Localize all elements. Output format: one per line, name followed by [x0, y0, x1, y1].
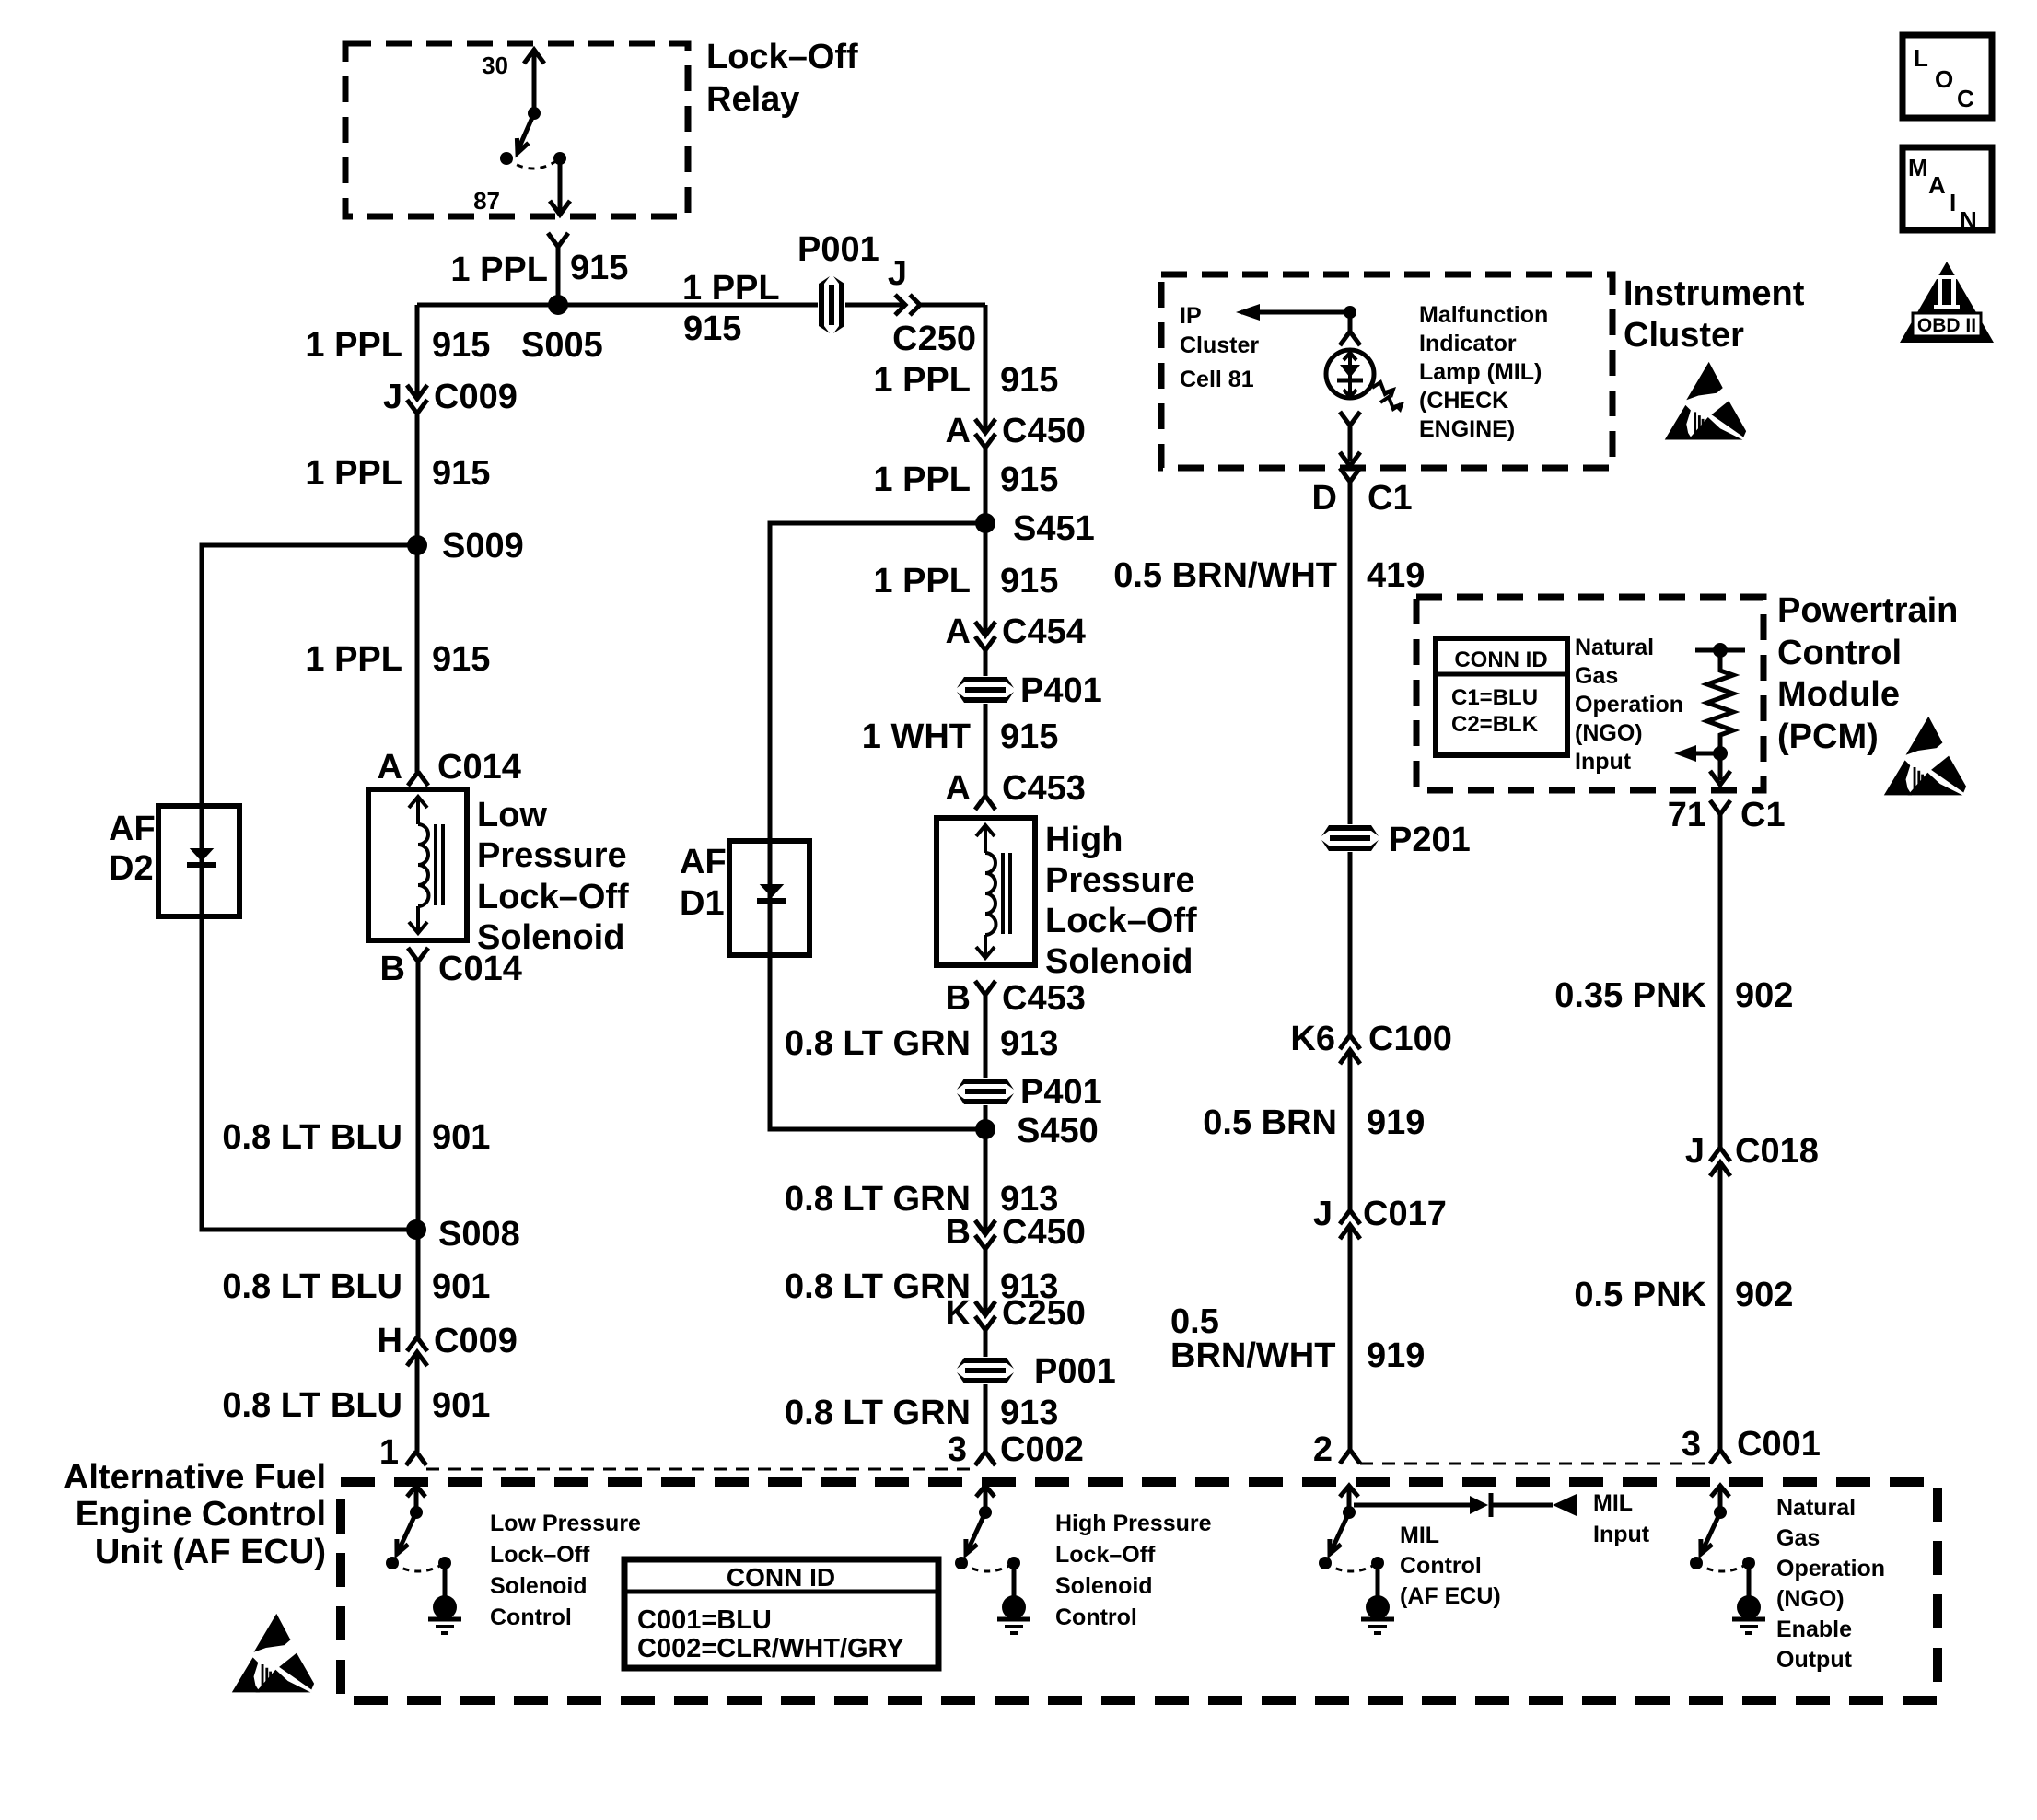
svg-text:S005: S005	[521, 326, 603, 365]
wire relay to S005	[556, 247, 561, 305]
lamp rays (lightning arrows)	[1372, 382, 1392, 394]
svg-text:913: 913	[1000, 1024, 1058, 1063]
svg-text:Module: Module	[1777, 675, 1900, 714]
svg-text:C1=BLU: C1=BLU	[1451, 685, 1538, 710]
svg-text:0.8 LT GRN: 0.8 LT GRN	[785, 1024, 971, 1063]
svg-text:Gas: Gas	[1575, 663, 1618, 689]
svg-text:S451: S451	[1013, 509, 1095, 548]
wire middle column upper	[984, 305, 988, 796]
svg-text:901: 901	[432, 1386, 490, 1425]
connector J C009	[407, 385, 427, 399]
svg-text:D2: D2	[109, 849, 154, 888]
svg-text:C450: C450	[1002, 412, 1086, 450]
svg-text:Alternative Fuel: Alternative Fuel	[64, 1458, 326, 1497]
svg-text:High: High	[1045, 821, 1123, 859]
switch: Low Pressure Lock-Off Solenoid Control driver	[386, 1486, 461, 1633]
svg-text:C001: C001	[1737, 1425, 1821, 1464]
svg-text:3: 3	[948, 1430, 967, 1469]
connector 71 C1 fork	[1710, 800, 1730, 814]
svg-text:C1: C1	[1740, 796, 1786, 834]
PCM CONN ID table	[1436, 638, 1567, 755]
svg-text:C1: C1	[1368, 479, 1413, 518]
lamp input fork	[1340, 332, 1360, 345]
grommet P001 (lower)	[957, 1357, 1014, 1384]
switch: NGO Enable Output driver	[1690, 1486, 1765, 1633]
svg-text:BRN/WHT: BRN/WHT	[1170, 1336, 1335, 1375]
AF ECU dashed box	[341, 1482, 1938, 1700]
svg-text:C017: C017	[1363, 1195, 1447, 1233]
relay contact 87 dot left	[500, 152, 513, 165]
svg-text:Indicator: Indicator	[1419, 331, 1517, 356]
splice S009 dot	[407, 535, 427, 555]
connector D C1 fork	[1340, 468, 1360, 482]
connector pin 2 fork (AF ECU)	[1340, 1450, 1360, 1464]
svg-text:A: A	[946, 612, 971, 651]
svg-text:901: 901	[432, 1267, 490, 1306]
svg-text:915: 915	[683, 309, 741, 348]
svg-text:Solenoid: Solenoid	[1055, 1573, 1153, 1599]
relay K: Lock-Off Relay dashed box	[345, 43, 688, 216]
resistor bottom node dot	[1713, 746, 1728, 761]
svg-text:Cluster: Cluster	[1624, 316, 1744, 355]
svg-text:2: 2	[1313, 1430, 1333, 1469]
connector fork below relay	[548, 233, 568, 247]
svg-text:Lock–Off: Lock–Off	[490, 1542, 590, 1568]
svg-text:915: 915	[1000, 717, 1058, 756]
svg-text:Powertrain: Powertrain	[1777, 591, 1958, 630]
svg-text:P401: P401	[1020, 671, 1102, 710]
svg-text:J: J	[888, 254, 907, 293]
svg-text:C453: C453	[1002, 769, 1086, 808]
MIL lamp internal diode	[1348, 354, 1352, 396]
connector face dashed line (right segment)	[1360, 1463, 1710, 1465]
svg-text:Pressure: Pressure	[1045, 861, 1195, 900]
svg-text:B: B	[946, 979, 971, 1018]
svg-text:Low: Low	[477, 796, 547, 834]
svg-text:P401: P401	[1020, 1073, 1102, 1112]
svg-text:0.8 LT GRN: 0.8 LT GRN	[785, 1267, 971, 1306]
svg-text:915: 915	[570, 249, 628, 287]
diode AF D1 box	[729, 841, 809, 955]
svg-text:1 WHT: 1 WHT	[862, 717, 971, 756]
relay switch blade	[518, 113, 534, 151]
svg-text:902: 902	[1735, 976, 1793, 1015]
svg-text:MIL: MIL	[1593, 1490, 1633, 1516]
wire to IP cluster with arrow	[1241, 310, 1350, 315]
svg-text:Malfunction: Malfunction	[1419, 302, 1548, 328]
svg-text:71: 71	[1668, 796, 1706, 834]
wire left column upper	[415, 305, 420, 772]
LOC reference box	[1903, 35, 1992, 118]
svg-text:Operation: Operation	[1575, 692, 1683, 717]
grommet P401 (upper)	[957, 676, 1014, 704]
solenoid coil symbol (low pressure)	[409, 797, 443, 933]
diode AF D2 symbol	[192, 849, 212, 860]
resistor (NGO pull-up) top rail	[1695, 648, 1745, 653]
svg-text:919: 919	[1367, 1103, 1425, 1142]
splice S008 dot	[406, 1219, 426, 1240]
relay pin 30 arrow	[532, 52, 537, 113]
svg-text:J: J	[1685, 1132, 1705, 1171]
ESD symbol (PCM)	[1884, 717, 1966, 796]
relay common contact dot	[528, 107, 541, 120]
NGO input arrow (left)	[1687, 752, 1720, 756]
connector K6 C100	[1340, 1035, 1360, 1049]
svg-text:High Pressure: High Pressure	[1055, 1511, 1212, 1536]
svg-text:C100: C100	[1368, 1020, 1452, 1058]
svg-text:CONN ID: CONN ID	[727, 1563, 835, 1592]
solenoid box (Low Pressure Lock-Off Solenoid)	[368, 789, 467, 940]
wire PNK column	[1718, 814, 1723, 1450]
connector face dashed line (left segment)	[426, 1468, 975, 1471]
connector J C250 fork	[910, 295, 920, 315]
svg-text:1 PPL: 1 PPL	[450, 251, 548, 289]
svg-text:K6: K6	[1290, 1020, 1335, 1058]
svg-text:1 PPL: 1 PPL	[682, 269, 780, 308]
AF ECU CONN ID table	[624, 1559, 938, 1668]
svg-text:P001: P001	[797, 230, 879, 269]
svg-text:1 PPL: 1 PPL	[305, 454, 402, 493]
svg-text:30: 30	[482, 52, 508, 79]
OBD II triangle	[1900, 262, 1994, 343]
switch: High Pressure Lock-Off Solenoid Control driver	[955, 1486, 1030, 1633]
svg-text:IP: IP	[1180, 303, 1202, 329]
svg-text:Input: Input	[1575, 749, 1632, 775]
svg-text:901: 901	[432, 1118, 490, 1157]
svg-text:87: 87	[473, 187, 500, 215]
svg-text:B: B	[380, 950, 405, 988]
svg-text:913: 913	[1000, 1394, 1058, 1432]
switch: MIL Control driver	[1319, 1486, 1394, 1633]
svg-text:M: M	[1908, 154, 1928, 181]
svg-text:C001=BLU: C001=BLU	[637, 1605, 772, 1635]
grommet P001 (top)	[818, 276, 845, 333]
svg-text:C453: C453	[1002, 979, 1086, 1018]
svg-text:AF: AF	[680, 843, 727, 881]
svg-text:(NGO): (NGO)	[1575, 720, 1643, 746]
svg-text:Cluster: Cluster	[1180, 332, 1259, 358]
svg-text:Lock–Off: Lock–Off	[706, 38, 858, 76]
svg-text:Output: Output	[1776, 1647, 1853, 1673]
svg-text:S008: S008	[438, 1215, 520, 1254]
svg-text:1 PPL: 1 PPL	[305, 326, 402, 365]
svg-text:A: A	[946, 412, 971, 450]
connector B C450	[975, 1220, 995, 1234]
ESD symbol (AF ECU)	[232, 1614, 314, 1693]
svg-text:915: 915	[432, 326, 490, 365]
svg-text:C: C	[1957, 85, 1974, 112]
wire MIL column upper	[1348, 482, 1353, 1450]
svg-text:C250: C250	[1002, 1294, 1086, 1333]
svg-text:C009: C009	[434, 378, 518, 416]
svg-text:915: 915	[1000, 361, 1058, 400]
svg-text:Lock–Off: Lock–Off	[1045, 902, 1197, 940]
svg-text:Instrument: Instrument	[1624, 274, 1805, 313]
svg-text:(NGO): (NGO)	[1776, 1586, 1845, 1612]
solenoid coil symbol (high pressure)	[976, 825, 1010, 958]
wire dot to lamp fork	[1348, 312, 1353, 332]
relay dashed throw arc	[506, 158, 560, 169]
svg-text:J: J	[383, 378, 402, 416]
svg-text:ENGINE): ENGINE)	[1419, 416, 1515, 442]
svg-text:(CHECK: (CHECK	[1419, 388, 1508, 414]
wire left column lower	[417, 962, 418, 1452]
svg-text:H: H	[378, 1322, 402, 1360]
svg-text:D: D	[1312, 479, 1337, 518]
svg-text:0.35 PNK: 0.35 PNK	[1554, 976, 1706, 1015]
svg-text:0.5: 0.5	[1170, 1302, 1219, 1341]
grommet P201	[1321, 824, 1379, 852]
svg-text:C014: C014	[437, 748, 521, 787]
svg-text:Lock–Off: Lock–Off	[477, 878, 629, 916]
relay pin 87 output arrow	[558, 158, 563, 211]
wire S009 branch to S008	[202, 545, 417, 1230]
svg-text:C018: C018	[1735, 1132, 1819, 1171]
svg-text:C250: C250	[892, 320, 976, 358]
svg-text:915: 915	[1000, 562, 1058, 601]
svg-text:A: A	[1928, 171, 1946, 199]
splice S451 dot	[975, 513, 995, 533]
svg-text:MIL: MIL	[1400, 1522, 1439, 1548]
splice S450 dot	[975, 1119, 995, 1139]
svg-text:Control: Control	[1055, 1604, 1137, 1630]
svg-text:1 PPL: 1 PPL	[873, 461, 971, 499]
svg-text:S009: S009	[442, 527, 524, 566]
lamp output fork	[1340, 412, 1360, 426]
svg-text:C002: C002	[1000, 1430, 1084, 1469]
svg-text:P001: P001	[1034, 1352, 1116, 1391]
svg-text:Lock–Off: Lock–Off	[1055, 1542, 1156, 1568]
diode AF D2 box	[158, 806, 239, 916]
svg-text:Lamp (MIL): Lamp (MIL)	[1419, 359, 1542, 385]
svg-text:O: O	[1935, 65, 1953, 93]
diode AF D1 symbol	[762, 885, 782, 896]
svg-text:Operation: Operation	[1776, 1556, 1885, 1581]
svg-text:AF: AF	[109, 810, 156, 848]
solenoid box (High Pressure Lock-Off Solenoid)	[937, 818, 1035, 965]
svg-text:Control: Control	[1400, 1553, 1482, 1579]
connector pin 3 C002 fork	[975, 1452, 995, 1465]
svg-text:J: J	[1313, 1195, 1333, 1233]
svg-text:CONN ID: CONN ID	[1454, 647, 1547, 672]
svg-text:0.8 LT BLU: 0.8 LT BLU	[222, 1386, 402, 1425]
svg-text:Unit (AF ECU): Unit (AF ECU)	[95, 1533, 326, 1571]
wire top bus left part	[417, 303, 905, 308]
svg-text:Solenoid: Solenoid	[1045, 942, 1193, 981]
svg-text:Gas: Gas	[1776, 1525, 1820, 1551]
svg-text:L: L	[1914, 44, 1928, 72]
connector A C450	[975, 419, 995, 433]
svg-text:0.8 LT BLU: 0.8 LT BLU	[222, 1118, 402, 1157]
resistor R zigzag	[1707, 650, 1733, 753]
connector A C454	[975, 622, 995, 636]
svg-text:0.5 BRN/WHT: 0.5 BRN/WHT	[1113, 556, 1337, 595]
svg-text:Cell 81: Cell 81	[1180, 367, 1254, 392]
connector J C250 arrowhead	[895, 295, 905, 315]
svg-text:A: A	[946, 769, 971, 808]
svg-text:Low Pressure: Low Pressure	[490, 1511, 641, 1536]
node dot above MIL lamp	[1344, 306, 1356, 319]
svg-text:P201: P201	[1389, 821, 1471, 859]
svg-text:S450: S450	[1017, 1112, 1099, 1150]
connector A C014 fork	[408, 772, 428, 786]
svg-text:902: 902	[1735, 1276, 1793, 1314]
svg-text:0.8 LT GRN: 0.8 LT GRN	[785, 1180, 971, 1219]
svg-text:0.5 PNK: 0.5 PNK	[1574, 1276, 1706, 1314]
splice S005 dot	[548, 295, 568, 315]
connector H C009	[407, 1337, 427, 1351]
svg-text:1 PPL: 1 PPL	[305, 640, 402, 679]
svg-text:C454: C454	[1002, 612, 1086, 651]
svg-text:C009: C009	[434, 1322, 518, 1360]
svg-text:D1: D1	[680, 884, 725, 923]
svg-text:(AF ECU): (AF ECU)	[1400, 1583, 1501, 1609]
svg-text:A: A	[378, 748, 402, 787]
svg-text:Solenoid: Solenoid	[490, 1573, 588, 1599]
wire lamp to cluster edge with arrow	[1348, 426, 1353, 461]
connector pin 3 C001 fork	[1710, 1450, 1730, 1464]
svg-text:N: N	[1960, 206, 1977, 234]
wire middle column lower	[984, 995, 988, 1452]
MIL Input diode line	[1354, 1503, 1553, 1508]
connector B C014 fork	[408, 948, 428, 962]
grommet P401 (lower)	[957, 1078, 1014, 1105]
Powertrain Control Module dashed box	[1416, 597, 1763, 790]
svg-text:(PCM): (PCM)	[1777, 717, 1879, 756]
svg-text:1: 1	[379, 1433, 399, 1472]
wire top bus right part	[920, 303, 985, 308]
svg-text:K: K	[946, 1294, 972, 1333]
svg-text:915: 915	[432, 454, 490, 493]
connector J C018	[1710, 1148, 1730, 1161]
svg-text:3: 3	[1682, 1425, 1701, 1464]
connector B C453 fork	[975, 981, 995, 995]
MIL lamp circle	[1326, 350, 1374, 398]
svg-text:Control: Control	[490, 1604, 572, 1630]
relay contact 87 dot right	[553, 152, 566, 165]
svg-text:C014: C014	[438, 950, 522, 988]
resistor top node dot	[1713, 643, 1728, 658]
connector K C250	[975, 1301, 995, 1315]
svg-text:Natural: Natural	[1776, 1495, 1856, 1521]
svg-text:915: 915	[1000, 461, 1058, 499]
wire resistor to pin 71 with arrow	[1718, 753, 1723, 780]
Instrument Cluster dashed box	[1161, 274, 1612, 468]
ESD symbol (instrument cluster)	[1665, 362, 1746, 440]
svg-text:919: 919	[1367, 1336, 1425, 1375]
connector A C453 fork	[975, 796, 995, 810]
svg-text:C2=BLK: C2=BLK	[1451, 712, 1539, 737]
svg-text:0.5 BRN: 0.5 BRN	[1203, 1103, 1337, 1142]
svg-text:B: B	[946, 1213, 971, 1252]
svg-text:Relay: Relay	[706, 80, 799, 119]
wire S451 branch to AF D1	[770, 523, 985, 1129]
svg-text:I: I	[1950, 189, 1956, 216]
svg-text:Control: Control	[1777, 634, 1902, 672]
connector pin 1 (AF ECU) fork	[406, 1452, 426, 1465]
svg-text:Pressure: Pressure	[477, 836, 627, 875]
svg-text:0.8 LT GRN: 0.8 LT GRN	[785, 1394, 971, 1432]
svg-text:1 PPL: 1 PPL	[873, 361, 971, 400]
svg-text:OBD II: OBD II	[1917, 315, 1976, 336]
svg-text:C450: C450	[1002, 1213, 1086, 1252]
svg-text:C002=CLR/WHT/GRY: C002=CLR/WHT/GRY	[637, 1634, 904, 1663]
svg-text:915: 915	[432, 640, 490, 679]
svg-text:Natural: Natural	[1575, 635, 1654, 660]
svg-text:0.8 LT BLU: 0.8 LT BLU	[222, 1267, 402, 1306]
svg-text:Input: Input	[1593, 1522, 1650, 1547]
svg-text:1 PPL: 1 PPL	[873, 562, 971, 601]
svg-text:Engine Control: Engine Control	[76, 1495, 326, 1534]
svg-text:419: 419	[1367, 556, 1425, 595]
svg-text:Enable: Enable	[1776, 1616, 1852, 1642]
MAIN reference box	[1903, 147, 1992, 230]
connector J C017	[1340, 1210, 1360, 1224]
